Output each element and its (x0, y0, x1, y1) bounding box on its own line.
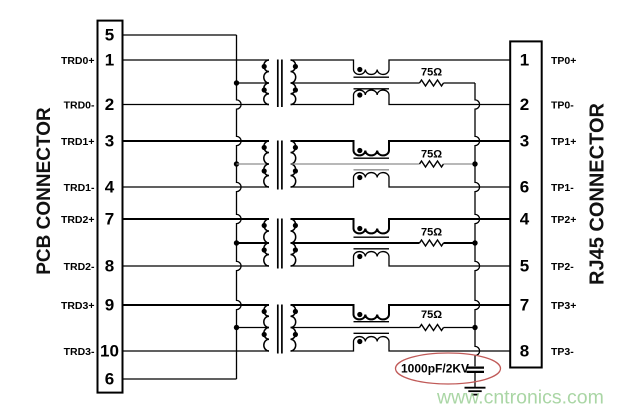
wire TRD3- rail (left box to transformer) (123, 350, 270, 352)
svg-text:8: 8 (105, 257, 114, 276)
choke L3 top winding + wire TP2+ rail (291, 219, 511, 233)
wire resistor R3 to common bus (444, 242, 476, 244)
svg-text:10: 10 (100, 342, 119, 361)
junction: resistor output on common bus (472, 240, 477, 245)
choke L3 polarity dots (357, 226, 362, 231)
choke L4 polarity dots (357, 312, 362, 317)
wire primary center tap channel 0 (237, 82, 270, 84)
svg-text:TP0+: TP0+ (551, 55, 576, 67)
transformer T3 primary winding (264, 219, 269, 266)
choke L2 bottom winding + wire TP1- rail (291, 173, 511, 187)
svg-text:TRD1-: TRD1- (64, 182, 95, 194)
choke L1 core (354, 76, 390, 78)
transformer T2 secondary polarity dots (293, 145, 298, 150)
center-tap bus (vertical, with crossover hops) (237, 35, 242, 379)
transformer T4 primary polarity dots (262, 309, 267, 314)
transformer T2 core (277, 141, 279, 190)
svg-text:TRD0+: TRD0+ (61, 55, 95, 67)
svg-text:6: 6 (520, 178, 529, 197)
svg-text:75Ω: 75Ω (421, 309, 442, 321)
svg-text:3: 3 (105, 132, 114, 151)
RJ45 connector J2 body (510, 41, 542, 367)
transformer T4 secondary polarity dots (293, 309, 298, 314)
transformer T4 secondary winding (291, 305, 296, 351)
transformer T2 primary winding (264, 141, 269, 187)
choke L4 bottom winding + wire TP3- rail (291, 337, 511, 351)
choke L3 bottom winding + wire TP2- rail (291, 252, 511, 266)
svg-text:75Ω: 75Ω (421, 67, 442, 79)
transformer T1 secondary polarity dots (293, 64, 298, 69)
svg-text:1: 1 (105, 51, 114, 70)
transformer T1 primary polarity dots (262, 64, 267, 69)
svg-text:www.cntronics.com: www.cntronics.com (436, 387, 604, 409)
svg-text:TRD3-: TRD3- (64, 346, 95, 358)
transformer T1 secondary winding (291, 60, 296, 105)
resistor R2 75 ohm (420, 161, 444, 167)
svg-text:1: 1 (520, 51, 529, 70)
choke L4 core (354, 321, 390, 323)
transformer T3 primary polarity dots (262, 223, 267, 228)
svg-text:2: 2 (520, 95, 529, 114)
svg-text:RJ45 CONNECTOR: RJ45 CONNECTOR (587, 103, 609, 285)
choke L2 core (354, 157, 390, 159)
svg-text:5: 5 (520, 257, 529, 276)
resistor R3 75 ohm (420, 240, 444, 246)
wire TRD1- rail (left box to transformer) (123, 186, 270, 188)
junction: channel 1 primary center tap on bus (234, 161, 239, 166)
junction: channel 0 primary center tap on bus (234, 80, 239, 85)
svg-text:TP2-: TP2- (551, 261, 574, 273)
transformer T1 core (277, 60, 279, 108)
svg-text:TRD2-: TRD2- (64, 261, 95, 273)
svg-text:1000pF/2KV: 1000pF/2KV (401, 362, 469, 376)
transformer T2 primary polarity dots (262, 145, 267, 150)
choke L2 top winding + wire TP1+ rail (291, 141, 511, 155)
choke L1 bottom winding + wire TP0- rail (291, 90, 511, 104)
transformer T3 secondary polarity dots (293, 223, 298, 228)
wire TRD0+ rail (left box to transformer) (123, 59, 270, 61)
transformer T4 primary winding (264, 305, 269, 351)
resistor R4 75 ohm (420, 325, 444, 331)
wire primary center tap channel 1 (237, 163, 270, 165)
wire resistor R4 to common bus (444, 327, 476, 329)
svg-text:TP1+: TP1+ (551, 136, 576, 148)
wire primary center tap channel 2 (237, 242, 270, 244)
wire secondary center tap channel 1 to resistor (291, 163, 420, 165)
wire resistor R1 to common bus (444, 82, 476, 84)
svg-text:4: 4 (520, 210, 530, 229)
capacitor C1 1000pF/2KV (467, 367, 485, 369)
ground symbol (465, 387, 486, 389)
svg-text:3: 3 (520, 132, 529, 151)
junction: resistor output on common bus (472, 161, 477, 166)
wire TRD2+ rail (left box to transformer) (123, 218, 270, 220)
wire pin 5 to center-tap bus (123, 34, 237, 36)
wire capacitor to ground (474, 373, 476, 387)
choke L2 polarity dots (357, 148, 362, 153)
transformer T3 secondary winding (291, 219, 296, 266)
svg-text:TP3-: TP3- (551, 346, 574, 358)
svg-text:75Ω: 75Ω (421, 149, 442, 161)
wire secondary center tap channel 0 to resistor (291, 82, 420, 84)
svg-text:8: 8 (520, 342, 529, 361)
transformer T1 primary winding (264, 60, 269, 105)
svg-text:TP0-: TP0- (551, 99, 574, 111)
svg-text:TRD2+: TRD2+ (61, 214, 95, 226)
junction: resistor output on common bus (472, 325, 477, 330)
wire resistor R2 to common bus (444, 163, 476, 165)
wire TRD0- rail (left box to transformer) (123, 104, 270, 106)
svg-text:TP3+: TP3+ (551, 300, 576, 312)
resistor R1 75 ohm (420, 80, 444, 86)
wire primary center tap channel 3 (237, 327, 270, 329)
svg-text:TRD1+: TRD1+ (61, 136, 95, 148)
svg-text:4: 4 (105, 178, 115, 197)
annotation: red highlight ellipse (396, 353, 501, 384)
svg-text:TRD0-: TRD0- (64, 99, 95, 111)
wire secondary center tap channel 2 to resistor (291, 242, 420, 244)
transformer T4 core (277, 305, 279, 354)
choke L3 core (354, 236, 390, 238)
PCB connector J1 body (98, 21, 123, 393)
choke L4 top winding + wire TP3+ rail (291, 305, 511, 319)
wire pin 6 to center-tap bus (123, 378, 237, 380)
svg-text:TRD3+: TRD3+ (61, 300, 95, 312)
svg-text:7: 7 (520, 296, 529, 315)
wire TRD1+ rail (left box to transformer) (123, 140, 270, 142)
common termination bus (vertical, with crossover hops) (475, 83, 480, 366)
transformer T2 secondary winding (291, 141, 296, 187)
svg-text:TP1-: TP1- (551, 182, 574, 194)
svg-text:9: 9 (105, 296, 114, 315)
wire TRD3+ rail (left box to transformer) (123, 304, 270, 306)
svg-text:7: 7 (105, 210, 114, 229)
svg-text:2: 2 (105, 95, 114, 114)
svg-text:5: 5 (105, 26, 114, 45)
wire secondary center tap channel 3 to resistor (291, 327, 420, 329)
svg-text:TP2+: TP2+ (551, 214, 576, 226)
junction: channel 3 primary center tap on bus (234, 325, 239, 330)
choke L1 top winding + wire TP0+ rail (291, 60, 511, 74)
choke L1 polarity dots (357, 67, 362, 72)
transformer T3 core (277, 219, 279, 269)
wire TRD2- rail (left box to transformer) (123, 265, 270, 267)
junction: channel 2 primary center tap on bus (234, 240, 239, 245)
svg-text:6: 6 (105, 370, 114, 389)
svg-text:PCB CONNECTOR: PCB CONNECTOR (34, 107, 55, 275)
svg-text:75Ω: 75Ω (421, 227, 442, 239)
